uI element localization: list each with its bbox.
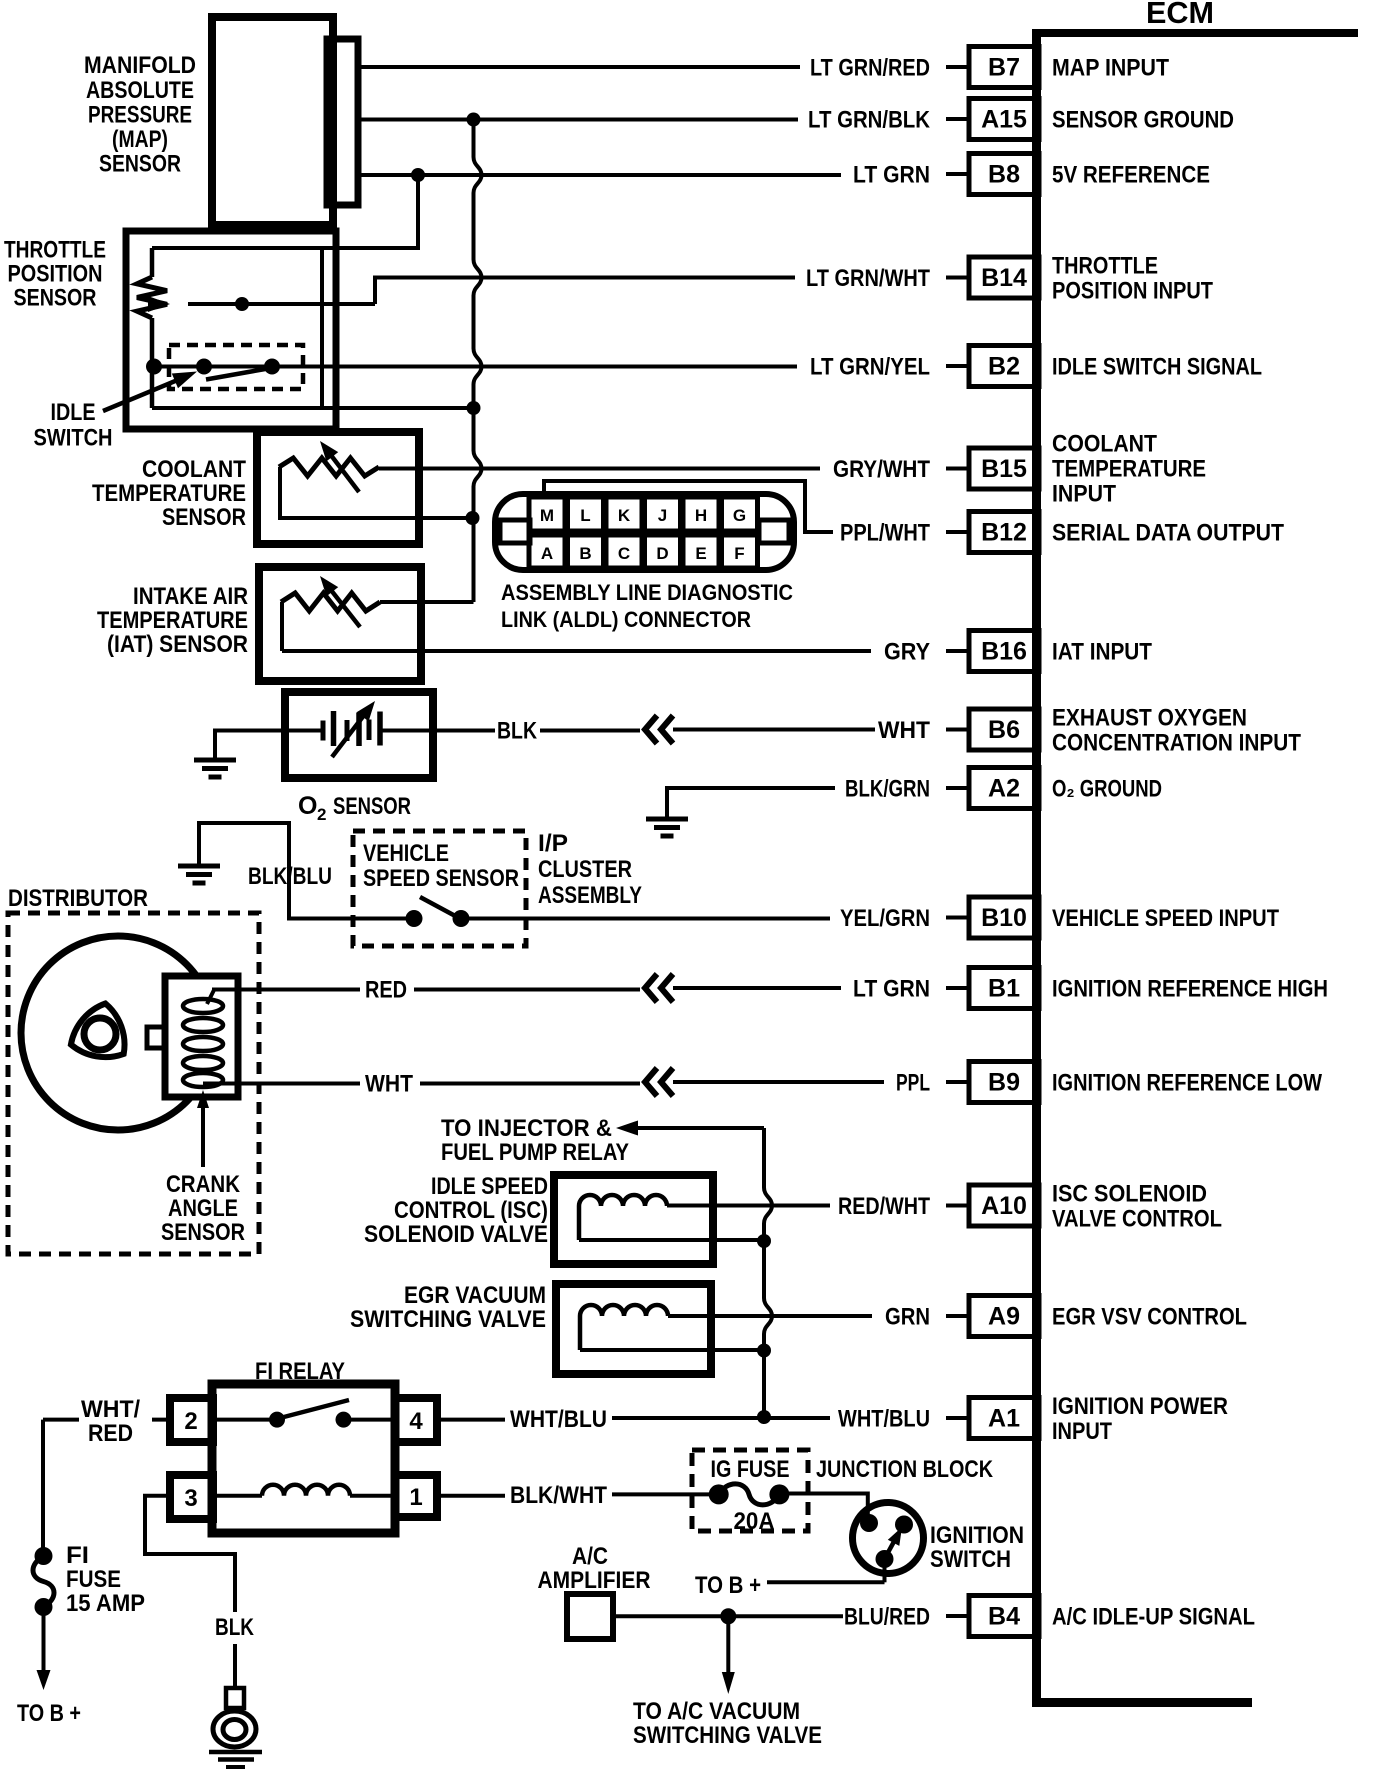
TO A/C VACUUM label [633,1698,822,1749]
pin B15 function label [1052,431,1206,508]
ignition switch contacts [860,1514,913,1568]
svg-text:B12: B12 [981,519,1027,547]
svg-text:LT GRN: LT GRN [853,162,930,189]
svg-text:A: A [541,544,553,563]
distributor circle [21,936,215,1130]
I/P cluster assembly label [538,830,642,909]
svg-text:LT GRN: LT GRN [853,976,930,1003]
svg-text:B10: B10 [981,904,1027,932]
pin B6 function label [1052,705,1301,757]
ECM pin A1 box [946,1398,1039,1439]
svg-text:IDLE SWITCH SIGNAL: IDLE SWITCH SIGNAL [1052,354,1262,381]
ECM title [1146,0,1214,30]
TPS inner right edge [320,248,324,408]
svg-text:20A: 20A [734,1508,775,1535]
coolant sensor label [92,456,246,531]
wire FI relay pin 3 to ground [145,1496,235,1690]
svg-text:SWITCH: SWITCH [930,1546,1011,1573]
wire MAP to B7 (LT GRN/RED) [358,65,800,69]
wire B+ to ignition switch [767,1559,885,1582]
BLK/BLU ground symbol [178,866,220,883]
ECM pin A15 box [946,99,1039,140]
pickup coil [183,999,223,1087]
svg-text:INPUT: INPUT [1052,1418,1112,1445]
ECM module outline [1032,29,1358,1707]
IDLE SWITCH label [34,399,113,452]
wire label WHT/BLU at pin A1 [838,1406,930,1433]
IAT sensor label [97,583,248,658]
FI relay switch [213,1400,395,1428]
svg-text:FI: FI [66,1542,89,1569]
pin A9 function label [1052,1304,1247,1331]
svg-text:B7: B7 [988,54,1020,82]
wire coolant to B15 (GRY/WHT) [379,467,820,471]
svg-text:4: 4 [409,1408,423,1435]
svg-text:ASSEMBLY: ASSEMBLY [538,882,642,909]
svg-text:THROTTLE: THROTTLE [4,237,106,264]
svg-text:B1: B1 [988,975,1020,1003]
pin B7 function label [1052,55,1169,82]
svg-text:DISTRIBUTOR: DISTRIBUTOR [8,885,148,912]
svg-text:MANIFOLD: MANIFOLD [84,52,196,79]
ECM pin B2 box [946,346,1039,387]
svg-text:B2: B2 [988,353,1020,381]
MAP sensor body [212,17,333,225]
DISTRIBUTOR label [8,885,148,912]
wire label RED/WHT at pin A10 [838,1193,930,1220]
idle switch blade [206,368,271,380]
svg-text:O₂ GROUND: O₂ GROUND [1052,776,1162,803]
wire label LT GRN/YEL at pin B2 [810,354,930,381]
pin A10 function label [1052,1181,1222,1233]
wire label LT GRN/RED at pin B7 [810,55,930,82]
svg-text:A/C IDLE-UP SIGNAL: A/C IDLE-UP SIGNAL [1052,1604,1255,1631]
ECM pin A9 box [946,1296,1039,1337]
wire O2 sensor to B6 (BLK) [433,729,640,733]
O2 sensor battery cell [285,711,433,746]
svg-text:B6: B6 [988,716,1020,744]
VSS switch blade [420,897,459,918]
svg-text:IAT INPUT: IAT INPUT [1052,639,1152,666]
ECM pin B7 box [946,47,1039,88]
MAP sensor label [84,52,196,178]
EGR coil [580,1305,872,1350]
vehicle speed sensor dashed box [353,831,526,946]
svg-text:O: O [298,792,317,820]
svg-text:B: B [579,544,591,563]
svg-text:B16: B16 [981,638,1027,666]
coolant temperature sensor box [257,432,419,544]
MAP sensor connector [327,39,358,205]
svg-text:B8: B8 [988,161,1020,189]
svg-text:ASSEMBLY LINE DIAGNOSTIC: ASSEMBLY LINE DIAGNOSTIC [501,580,793,605]
wire label GRY/WHT at pin B15 [833,456,930,483]
A/C amplifier box [567,1594,613,1639]
distributor dashed box [8,913,259,1254]
svg-text:TEMPERATURE: TEMPERATURE [97,607,248,634]
ECM pin B16 box [946,631,1039,672]
pin A15 function label [1052,107,1234,134]
intake air temperature sensor box [259,567,421,681]
O2 sensor ground symbol [194,760,236,777]
svg-text:EGR VACUUM: EGR VACUUM [404,1282,546,1309]
FI fuse [33,1547,54,1616]
wire label GRN at pin A9 [885,1304,930,1331]
wire label PPL/WHT at pin B12 [840,520,930,547]
svg-text:PPL/WHT: PPL/WHT [840,520,930,547]
svg-text:GRY: GRY [884,639,930,666]
wire fuse to ignition switch [779,1494,867,1518]
svg-text:ABSOLUTE: ABSOLUTE [86,77,194,104]
svg-text:IGNITION: IGNITION [930,1522,1024,1549]
svg-text:ECM: ECM [1146,0,1214,30]
TO B + label [17,1700,81,1727]
svg-text:LT GRN/WHT: LT GRN/WHT [806,265,930,292]
junction on A15 wire [467,113,481,127]
TPS potentiometer resistor [137,248,167,408]
svg-text:FUSE: FUSE [66,1566,121,1593]
ECM pin B12 box [946,512,1039,553]
wire EGR to power bus [580,1348,764,1352]
BLK wire label [215,1614,255,1641]
svg-text:BLK: BLK [497,718,538,745]
svg-text:IDLE: IDLE [51,399,96,426]
wire bus to A1 [764,1416,830,1420]
TPS wiper arrow [148,278,795,313]
wire to A/C vacuum valve [722,1616,735,1694]
wire chevron to B1 label [673,986,841,990]
ECM pin B1 box [946,968,1039,1009]
ALDL caption [501,580,793,632]
junction A1 [757,1410,771,1424]
FI relay pin 4 [395,1398,437,1442]
wire label PPL at pin B9 [896,1070,930,1097]
injector branch arrow [616,1121,764,1136]
pin A2 function label [1052,776,1162,803]
EGR vacuum switching valve box [556,1284,711,1374]
svg-text:LT GRN/RED: LT GRN/RED [810,55,930,82]
O2 sensor box [285,692,433,778]
wire distributor WHT to B9 [203,1082,640,1086]
wire label LT GRN/BLK at pin A15 [808,107,931,134]
svg-text:B9: B9 [988,1069,1020,1097]
ALDL connector outline [495,494,794,570]
ALDL left tab [500,520,530,543]
TO INJECTOR label [441,1115,629,1166]
svg-text:A1: A1 [988,1405,1020,1433]
svg-text:ISC SOLENOID: ISC SOLENOID [1052,1181,1207,1208]
coolant thermistor arrow [320,441,359,492]
pin B8 function label [1052,162,1210,189]
wire label LT GRN/WHT at pin B14 [806,265,930,292]
wire ground to A2 (BLK/GRN) [667,788,835,818]
chevron on B1 wire [645,974,673,1002]
svg-text:H: H [695,506,707,525]
pin B9 function label [1052,1070,1322,1097]
chevron on B6 wire [645,716,673,744]
wire label LT GRN at pin B8 [853,162,930,189]
wire MAP to B8 (LT GRN) [358,173,841,177]
IAT thermistor arrow [320,576,360,627]
wire IAT to B16 (GRY) [282,649,871,653]
svg-text:INPUT: INPUT [1052,481,1116,508]
svg-text:VALVE CONTROL: VALVE CONTROL [1052,1206,1222,1233]
svg-text:A10: A10 [981,1192,1027,1220]
RED wire label [365,977,407,1004]
ALDL top row cells M L K J H G [529,497,758,531]
svg-text:SENSOR: SENSOR [161,1219,245,1246]
ignition switch arrow [885,1527,903,1559]
svg-text:E: E [695,544,706,563]
svg-text:TEMPERATURE: TEMPERATURE [92,480,246,507]
svg-text:TEMPERATURE: TEMPERATURE [1052,456,1206,483]
BLK/BLU wire label [248,863,332,890]
pin B12 function label [1052,520,1284,547]
svg-text:TO B +: TO B + [695,1572,761,1599]
svg-text:COOLANT: COOLANT [1052,431,1157,458]
idle switch pointer arrow [103,372,197,412]
crank angle sensor pickup box [165,976,238,1097]
svg-text:L: L [580,506,590,525]
svg-text:CLUSTER: CLUSTER [538,856,632,883]
sensor ground bus wire (vertical) [474,120,482,603]
svg-text:A9: A9 [988,1303,1020,1331]
svg-text:TO A/C VACUUM: TO A/C VACUUM [633,1698,800,1725]
ECM pin B8 box [946,154,1039,195]
svg-text:TO B +: TO B + [17,1700,81,1727]
svg-text:YEL/GRN: YEL/GRN [840,905,930,932]
wire label LT GRN at pin B1 [853,976,930,1003]
svg-text:LT GRN/YEL: LT GRN/YEL [810,354,930,381]
wire ground to VSS (BLK/BLU) [199,823,414,919]
svg-text:3: 3 [184,1485,197,1512]
ECM pin B9 box [946,1062,1039,1103]
svg-text:BLU/RED: BLU/RED [844,1604,930,1631]
WHT wire label [365,1071,413,1098]
svg-text:EGR VSV CONTROL: EGR VSV CONTROL [1052,1304,1247,1331]
wire ISC to power bus [579,1238,764,1242]
FI relay box [212,1384,395,1533]
svg-text:F: F [734,544,744,563]
ECM pin B14 box [946,257,1039,298]
svg-text:POSITION INPUT: POSITION INPUT [1052,278,1213,305]
ECM pin A2 box [946,768,1039,809]
svg-text:PRESSURE: PRESSURE [88,102,192,129]
wire label GRY at pin B16 [884,639,930,666]
svg-text:BLK/BLU: BLK/BLU [248,863,332,890]
ALDL bottom row cells A B C D E F [529,535,758,568]
svg-text:GRY/WHT: GRY/WHT [833,456,930,483]
wire label BLU/RED at pin B4 [844,1604,930,1631]
svg-text:A15: A15 [981,106,1027,134]
svg-text:2: 2 [184,1408,197,1435]
FI relay pin 1 [395,1475,437,1517]
svg-text:WHT/: WHT/ [81,1396,140,1423]
svg-text:SPEED SENSOR: SPEED SENSOR [363,865,519,892]
wire WHT/RED to pin 2 [43,1418,170,1422]
svg-text:PPL: PPL [896,1070,930,1097]
wire label WHT at pin B6 [878,717,930,744]
svg-text:VEHICLE SPEED INPUT: VEHICLE SPEED INPUT [1052,905,1279,932]
junction A/C [720,1608,736,1624]
wire VSS to B10 (YEL/GRN) [461,917,830,921]
svg-text:5V REFERENCE: 5V REFERENCE [1052,162,1210,189]
svg-text:VEHICLE: VEHICLE [363,840,449,867]
junction ISC [757,1234,771,1248]
TPS ground wire (bottom) [152,406,474,410]
VSS label [363,840,519,892]
svg-text:C: C [618,544,630,563]
svg-text:(MAP): (MAP) [112,126,168,153]
svg-text:INTAKE AIR: INTAKE AIR [133,583,248,610]
crank sensor pointer [197,1090,209,1167]
wire chevron to B9 label [673,1080,884,1084]
CRANK ANGLE SENSOR label [161,1171,245,1246]
svg-text:SENSOR: SENSOR [162,504,246,531]
idle switch contacts [146,359,280,375]
svg-text:SENSOR: SENSOR [99,151,181,178]
WHT/RED wire label [81,1396,140,1447]
svg-text:IGNITION POWER: IGNITION POWER [1052,1393,1228,1420]
wire label BLK/GRN at pin A2 [845,776,930,803]
junction on B8 wire [411,168,425,182]
A/C AMPLIFIER label [538,1543,651,1594]
ECM pin B10 box [946,897,1039,938]
distributor rotor [71,1004,125,1058]
wire to FI fuse [41,1420,45,1549]
svg-text:SENSOR GROUND: SENSOR GROUND [1052,107,1234,134]
svg-text:WHT: WHT [878,717,930,744]
ISC solenoid valve box [554,1175,713,1264]
wire A/C amp to B4 (BLU/RED) [613,1614,843,1618]
svg-text:CONTROL (ISC): CONTROL (ISC) [394,1197,548,1224]
svg-text:BLK: BLK [215,1614,255,1641]
wire distributor RED to B1 [207,990,640,1005]
svg-text:AMPLIFIER: AMPLIFIER [538,1567,651,1594]
svg-text:J: J [658,506,667,525]
JUNCTION BLOCK label [816,1456,994,1483]
svg-text:I/P: I/P [538,830,568,857]
20A label [734,1508,775,1535]
throttle position sensor box [126,231,336,429]
svg-text:BLK/GRN: BLK/GRN [845,776,930,803]
svg-text:SENSOR: SENSOR [333,793,411,820]
junction TPS ground [467,401,481,415]
wire O2 sensor to ground [215,731,285,760]
svg-text:RED: RED [365,977,407,1004]
junction EGR [757,1344,771,1358]
svg-text:EXHAUST OXYGEN: EXHAUST OXYGEN [1052,705,1247,732]
IG FUSE dashed box [692,1450,808,1531]
svg-text:IDLE SPEED: IDLE SPEED [431,1173,548,1200]
BLK wire label [497,718,538,745]
svg-text:SENSOR: SENSOR [14,285,97,312]
idle switch dashed box [169,345,303,389]
svg-text:D: D [656,544,668,563]
IGNITION SWITCH label [930,1522,1024,1573]
svg-text:TO INJECTOR &: TO INJECTOR & [441,1115,612,1142]
svg-text:CONCENTRATION INPUT: CONCENTRATION INPUT [1052,730,1301,757]
IAT thermistor [281,593,380,651]
5V reference branch wire [152,175,418,248]
ISC solenoid label [364,1173,548,1248]
junction on wiper [235,297,249,311]
svg-text:K: K [618,506,631,525]
FI relay coil [213,1485,395,1496]
ring terminal ground [209,1688,262,1767]
svg-text:IGNITION REFERENCE LOW: IGNITION REFERENCE LOW [1052,1070,1322,1097]
ECM pin B4 box [946,1596,1039,1637]
wire ALDL pin M to B12 (serial data) [544,481,833,532]
svg-text:B4: B4 [988,1603,1020,1631]
FI relay pin 3 [170,1475,213,1519]
svg-text:COOLANT: COOLANT [142,456,246,483]
svg-text:WHT/BLU: WHT/BLU [510,1406,607,1433]
svg-text:15 AMP: 15 AMP [66,1590,145,1617]
svg-text:2: 2 [317,805,326,824]
svg-text:RED/WHT: RED/WHT [838,1193,930,1220]
pin A1 function label [1052,1393,1228,1445]
svg-text:WHT/BLU: WHT/BLU [838,1406,930,1433]
IG FUSE label [711,1456,790,1483]
svg-text:SWITCHING VALVE: SWITCHING VALVE [350,1306,546,1333]
wire label YEL/GRN at pin B10 [840,905,930,932]
svg-text:B14: B14 [981,264,1027,292]
ignition power bus (vertical) [764,1128,772,1417]
FI relay pin 2 [170,1398,213,1442]
svg-text:IG FUSE: IG FUSE [711,1456,790,1483]
ALDL right tab [759,520,789,543]
pin B2 function label [1052,354,1262,381]
svg-text:(IAT) SENSOR: (IAT) SENSOR [107,631,248,658]
svg-text:1: 1 [409,1484,422,1511]
IG fuse element [709,1484,790,1505]
O2 ground symbol at A2 [646,819,688,836]
wire MAP to A15 (LT GRN/BLK) [358,118,798,122]
svg-text:RED: RED [88,1420,133,1447]
coolant thermistor [279,458,473,518]
svg-text:GRN: GRN [885,1304,930,1331]
wire pin 4 WHT/BLU [437,1418,762,1420]
svg-text:SERIAL DATA OUTPUT: SERIAL DATA OUTPUT [1052,520,1284,547]
svg-text:THROTTLE: THROTTLE [1052,253,1158,280]
svg-text:A/C: A/C [572,1543,608,1570]
pin B16 function label [1052,639,1152,666]
pin B14 function label [1052,253,1213,305]
chevron on B9 wire [645,1068,673,1096]
BLK/WHT wire label [510,1482,607,1509]
pin B10 function label [1052,905,1279,932]
svg-text:IGNITION REFERENCE HIGH: IGNITION REFERENCE HIGH [1052,976,1328,1003]
FI RELAY label [255,1358,345,1385]
ECM pin B6 box [946,709,1039,750]
svg-text:POSITION: POSITION [8,261,103,288]
svg-text:LT GRN/BLK: LT GRN/BLK [808,107,931,134]
wire IAT to ground bus [380,600,474,604]
svg-text:G: G [733,506,746,525]
svg-text:BLK/WHT: BLK/WHT [510,1482,607,1509]
svg-text:M: M [540,506,554,525]
svg-text:SOLENOID VALVE: SOLENOID VALVE [364,1221,548,1248]
svg-text:LINK (ALDL) CONNECTOR: LINK (ALDL) CONNECTOR [501,607,751,632]
TPS label [4,237,106,312]
O2 sensor label [298,792,411,824]
svg-text:SWITCHING VALVE: SWITCHING VALVE [633,1722,822,1749]
O2 sensor variable arrow [332,701,375,757]
wire fuse to B+ [37,1607,51,1690]
ECM pin B15 box [946,448,1039,489]
FI FUSE label [66,1542,145,1617]
